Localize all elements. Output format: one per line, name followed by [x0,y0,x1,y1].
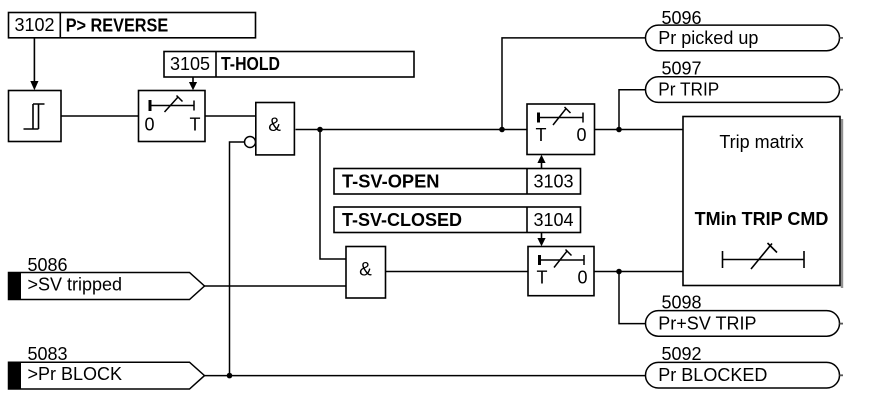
svg-text:>Pr BLOCK: >Pr BLOCK [28,364,123,384]
svg-text:0: 0 [577,267,587,287]
junction node C [499,127,505,133]
wire timer U2 to Trip matrix [595,129,684,131]
output 5097 Pr TRIP [646,58,844,102]
wire from inverter bubble down to >Pr BLOCK net [230,142,245,376]
svg-text:T-SV-CLOSED: T-SV-CLOSED [342,210,462,230]
AND gate G2 [346,247,386,299]
input 5086 >SV tripped [9,255,205,300]
svg-text:5092: 5092 [662,344,702,364]
svg-text:>SV tripped: >SV tripped [28,274,123,294]
timer U2 pickup-delay T/0 [527,104,595,155]
wire timer U3 to Trip matrix [595,271,684,273]
Trip matrix block shadow [841,119,843,288]
wire hysteresis to timer T-HOLD [61,115,139,117]
svg-text:Pr+SV TRIP: Pr+SV TRIP [658,314,756,334]
wire G2 output to timer U3 [386,271,529,273]
svg-text:T: T [537,267,548,287]
svg-text:&: & [359,259,372,280]
svg-text:5083: 5083 [28,344,68,364]
svg-text:Pr BLOCKED: Pr BLOCKED [658,365,767,385]
AND gate G1 [256,103,295,155]
svg-text:T: T [536,125,547,145]
wire node C up to Pr picked up output [502,38,646,130]
svg-text:3105: 3105 [170,54,210,74]
wire G1 output to timer U2 [296,129,528,131]
input 5083 >Pr BLOCK [9,344,205,389]
output 5098 Pr+SV TRIP [646,293,844,337]
param box 3102 P> REVERSE [9,13,256,38]
wire arrow from 3102 down to hysteresis element [30,38,38,90]
hysteresis element (P> measurement) [9,91,62,142]
wire >SV tripped to AND gate G2 [205,285,347,287]
inverter bubble on G1 lower input [245,137,256,148]
timer U1 dropout-delay 0/T [139,91,206,142]
wire >Pr BLOCK to Pr BLOCKED output [205,375,646,377]
junction node E [616,269,622,275]
junction node D [616,127,622,133]
junction dot on >Pr BLOCK net [227,373,233,379]
output 5092 Pr BLOCKED [646,344,844,388]
svg-text:3104: 3104 [533,210,573,230]
wire timer U1 to AND gate G1 [205,115,256,117]
wire arrow from 3104 down into timer U3 [537,233,545,247]
svg-text:5097: 5097 [662,58,702,78]
svg-text:T-SV-OPEN: T-SV-OPEN [342,172,440,192]
junction node B [317,127,323,133]
wire node B down to AND gate G2 [320,130,346,260]
svg-text:Pr TRIP: Pr TRIP [658,80,719,100]
svg-text:T-HOLD: T-HOLD [221,54,280,74]
svg-text:Trip matrix: Trip matrix [719,132,803,152]
param box T-SV-OPEN 3103 [334,169,581,195]
Trip matrix block [683,117,840,286]
wire arrow from T-SV-OPEN up into timer U2 [537,155,545,169]
param box T-SV-CLOSED 3104 [334,207,581,233]
svg-text:5098: 5098 [662,293,702,313]
wire node D up to Pr TRIP output [619,90,646,130]
wire node E down to Pr+SV TRIP output [619,272,646,324]
svg-text:0: 0 [576,125,586,145]
trip contact symbol [723,243,805,269]
output 5096 Pr picked up [646,8,844,51]
param box 3105 T-HOLD [164,52,414,78]
svg-text:TMin TRIP CMD: TMin TRIP CMD [695,209,829,229]
timer U3 pickup-delay T/0 [528,247,594,296]
svg-text:P> REVERSE: P> REVERSE [66,15,169,35]
svg-text:0: 0 [144,115,154,135]
svg-text:T: T [190,115,201,135]
svg-text:&: & [268,115,281,136]
svg-text:Pr picked up: Pr picked up [658,28,758,48]
svg-text:3103: 3103 [533,172,573,192]
svg-text:3102: 3102 [14,15,54,35]
wire arrow from 3105 down into timer U1 [189,77,197,90]
